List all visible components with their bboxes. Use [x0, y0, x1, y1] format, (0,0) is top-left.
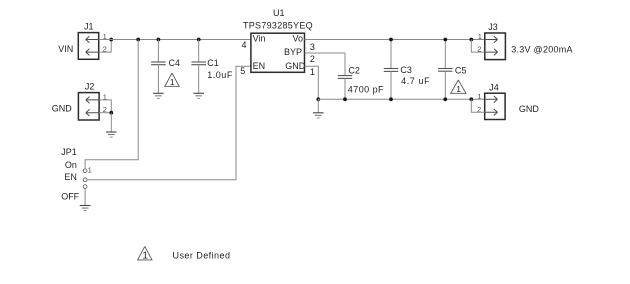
junction J2 pins — [109, 111, 113, 115]
svg-text:1: 1 — [456, 84, 461, 94]
svg-text:1: 1 — [478, 32, 482, 41]
wire U1 BYP stub — [305, 52, 346, 54]
svg-text:C1: C1 — [207, 58, 219, 68]
svg-text:1: 1 — [88, 165, 92, 174]
legend user-defined triangle — [137, 246, 152, 261]
svg-text:1: 1 — [170, 77, 175, 87]
capacitor C3 — [384, 40, 398, 100]
svg-text:4700 pF: 4700 pF — [348, 84, 384, 94]
capacitor C4 — [151, 40, 166, 94]
user-defined triangle 1 at C4 — [164, 73, 180, 87]
svg-text:EN: EN — [64, 172, 77, 182]
ground symbol C1 — [193, 93, 204, 98]
junction VIN/C1 — [197, 38, 201, 42]
svg-text:C5: C5 — [455, 65, 467, 75]
ground symbol JP1 — [80, 206, 91, 211]
svg-text:1: 1 — [310, 67, 315, 77]
svg-text:C3: C3 — [400, 65, 412, 75]
wire J2 to ground — [110, 113, 112, 132]
svg-text:1.0uF: 1.0uF — [207, 70, 233, 80]
junction J4 pins — [469, 97, 473, 101]
capacitor C5 — [438, 40, 452, 100]
connector J4 — [485, 93, 505, 119]
wire J3 pin2 jog — [471, 40, 485, 53]
junction J3 pins — [469, 38, 473, 42]
svg-text:J3: J3 — [488, 22, 498, 32]
svg-text:5: 5 — [240, 66, 245, 76]
connector J1 — [78, 33, 98, 60]
junction C3/VOUT — [389, 38, 393, 42]
svg-text:BYP: BYP — [284, 47, 302, 57]
junction U1 GND — [316, 97, 320, 101]
svg-text:C2: C2 — [348, 65, 360, 75]
op-amp U1 regulator TPS793285YEQ — [251, 33, 306, 72]
svg-text:User Defined: User Defined — [173, 250, 231, 260]
svg-text:EN: EN — [253, 61, 266, 71]
svg-text:J1: J1 — [84, 21, 94, 31]
junction VIN/C4 — [157, 38, 161, 42]
junction C2/GND rail — [343, 97, 347, 101]
wire VOUT rail — [305, 39, 485, 41]
wire VIN rail — [99, 39, 251, 41]
wire J4 pin2 jog — [471, 99, 484, 112]
svg-text:Vin: Vin — [253, 34, 266, 44]
wire GND rail — [318, 98, 484, 100]
svg-text:VIN: VIN — [58, 44, 73, 54]
svg-text:GND: GND — [285, 61, 306, 71]
svg-text:GND: GND — [519, 104, 540, 114]
ground symbol C4 — [153, 93, 164, 98]
svg-text:3: 3 — [310, 42, 315, 52]
svg-text:On: On — [65, 160, 77, 170]
svg-text:GND: GND — [52, 104, 72, 114]
svg-text:J2: J2 — [85, 81, 95, 91]
svg-text:TPS793285YEQ: TPS793285YEQ — [243, 21, 313, 31]
capacitor C1 — [191, 40, 206, 94]
svg-text:1: 1 — [477, 92, 481, 101]
junction VIN/JP1 branch — [136, 38, 140, 42]
svg-text:C4: C4 — [169, 58, 181, 68]
wire J2 pin2 — [99, 112, 111, 114]
junction C5/VOUT — [443, 38, 447, 42]
capacitor C2 — [338, 53, 352, 99]
ground symbol J2 — [106, 132, 117, 137]
svg-text:3.3V @200mA: 3.3V @200mA — [511, 44, 572, 54]
junction J1 pins — [109, 38, 113, 42]
svg-text:2: 2 — [310, 54, 315, 64]
connector J3 — [485, 33, 506, 60]
connector J2 — [78, 93, 99, 120]
wire J1 pin2 jog — [99, 40, 112, 53]
wire J2 pin1 jog — [99, 100, 111, 113]
svg-text:4: 4 — [242, 40, 247, 50]
wire JP1 EN to U1 — [87, 66, 251, 180]
user-defined triangle 1 at C5 — [450, 80, 466, 94]
svg-text:JP1: JP1 — [61, 147, 77, 157]
svg-text:1: 1 — [142, 251, 148, 262]
wire U1 GND stub — [305, 66, 319, 99]
svg-text:U1: U1 — [273, 8, 285, 18]
junction C5/GND rail — [443, 97, 447, 101]
ground symbol U1 — [313, 99, 324, 118]
svg-text:4.7 uF: 4.7 uF — [401, 76, 430, 86]
junction C3/GND rail — [389, 97, 393, 101]
wire JP1 OFF to ground — [84, 188, 86, 205]
svg-text:OFF: OFF — [61, 192, 79, 202]
jumper JP1 — [83, 169, 87, 189]
wire JP1 On to VIN — [85, 40, 138, 170]
svg-text:Vo: Vo — [293, 34, 304, 44]
svg-text:J4: J4 — [489, 83, 499, 93]
